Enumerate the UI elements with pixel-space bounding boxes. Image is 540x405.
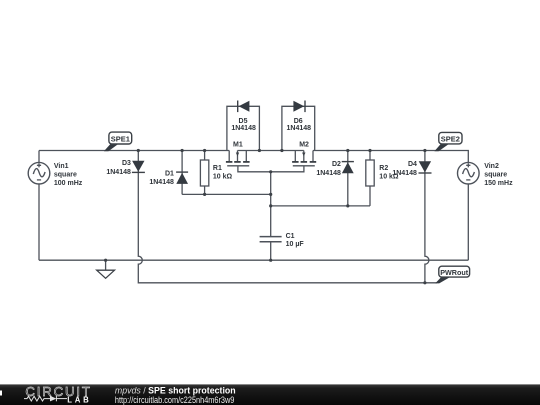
svg-text:100 mHz: 100 mHz [54,180,83,187]
svg-text:1N4148: 1N4148 [287,125,312,132]
svg-text:SPE2: SPE2 [441,134,460,143]
svg-text:D3: D3 [122,160,131,167]
svg-text:1N4148: 1N4148 [106,169,131,176]
svg-text:1N4148: 1N4148 [231,125,256,132]
svg-text:D6: D6 [294,118,303,125]
svg-text:D5: D5 [239,118,248,125]
svg-text:Vin1: Vin1 [54,163,69,170]
svg-text:Vin2: Vin2 [484,163,499,170]
svg-text:D4: D4 [408,161,417,168]
svg-text:150 mHz: 150 mHz [484,180,513,187]
svg-text:SPE1: SPE1 [111,134,130,143]
svg-text:http://circuitlab.com/c225nh4m: http://circuitlab.com/c225nh4m6r3w9 [115,396,235,405]
svg-text:10 kΩ: 10 kΩ [213,174,233,181]
svg-text:D1: D1 [165,170,174,177]
svg-text:square: square [484,172,507,179]
svg-text:D2: D2 [332,161,341,168]
svg-text:square: square [54,172,77,179]
svg-text:1N4148: 1N4148 [149,179,174,186]
svg-text:R1: R1 [213,165,222,172]
svg-text:mpvds / SPE short protection: mpvds / SPE short protection [115,386,236,396]
svg-text:R2: R2 [379,165,388,172]
svg-text:LAB: LAB [67,395,91,404]
svg-text:M2: M2 [299,142,309,149]
svg-text:PWRout: PWRout [440,268,469,277]
svg-text:10 µF: 10 µF [286,241,305,248]
svg-text:1N4148: 1N4148 [316,170,341,177]
svg-text:C1: C1 [286,233,295,240]
svg-text:10 kΩ: 10 kΩ [379,174,399,181]
svg-text:M1: M1 [233,142,243,149]
